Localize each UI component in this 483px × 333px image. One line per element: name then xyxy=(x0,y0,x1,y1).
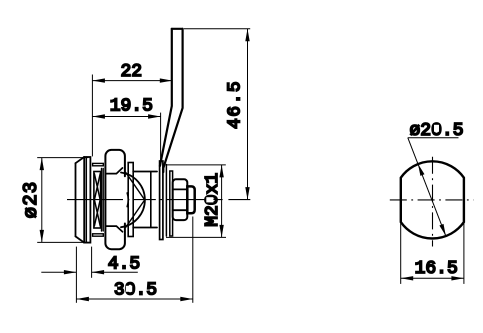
big nut chamfer arc xyxy=(121,173,145,228)
big nut facet line top xyxy=(105,168,122,174)
arrowheads 16.5 xyxy=(401,276,464,280)
washer before nut xyxy=(102,169,104,232)
dimension line M20x1 xyxy=(221,165,223,238)
arrowheads dia20.5 xyxy=(418,164,446,236)
extension line at flange rear xyxy=(91,75,93,157)
washer bottom cap xyxy=(93,234,104,236)
spacer plate xyxy=(165,165,167,237)
washer top cap xyxy=(93,163,104,165)
extension line at lever top xyxy=(184,28,250,30)
arrowheads dia23 xyxy=(40,158,44,243)
big nut M20 outline xyxy=(105,150,125,249)
washer behind nut xyxy=(128,163,133,237)
centerline side view xyxy=(67,199,250,201)
nut right facet arc xyxy=(127,193,128,207)
svg-text:22: 22 xyxy=(120,62,142,82)
bezel front face xyxy=(75,163,77,236)
spring housing xyxy=(94,172,101,229)
small nut facet top xyxy=(173,188,188,190)
extension lines dia23 xyxy=(37,158,88,243)
arrowheads 22 and 19.5 xyxy=(92,78,172,118)
svg-text:46.5: 46.5 xyxy=(226,80,246,129)
arrowheads M20x1 xyxy=(219,165,223,238)
dimension line 22 xyxy=(92,80,172,82)
cam plate xyxy=(160,161,163,240)
extension lines 4.5 xyxy=(76,247,91,303)
svg-text:30.5: 30.5 xyxy=(114,281,157,301)
arrowheads 46.5 xyxy=(245,29,249,200)
extension line at lock rear xyxy=(192,217,194,303)
leader underline dia20.5 xyxy=(408,137,459,139)
extension lines 16.5 xyxy=(401,223,464,284)
big nut facet line bottom xyxy=(105,226,122,232)
rear tube end face xyxy=(150,172,152,227)
spring zigzag xyxy=(94,174,100,226)
svg-text:4.5: 4.5 xyxy=(108,255,140,275)
bezel cone top xyxy=(76,157,85,163)
svg-text:ø23: ø23 xyxy=(20,181,42,219)
leader line dia20.5 xyxy=(408,138,446,236)
rear tube bottom xyxy=(133,227,157,229)
arrowheads 4.5 xyxy=(64,270,104,274)
white patches to hide mono zero dots xyxy=(126,125,439,292)
flange inner line xyxy=(85,157,87,243)
dimension line 4.5 xyxy=(41,271,138,273)
extension lines M20x1 xyxy=(166,165,226,238)
right view centerlines xyxy=(390,157,474,247)
flange ring xyxy=(84,157,90,243)
arrowheads 30.5 xyxy=(76,297,192,301)
cam lever xyxy=(160,29,183,172)
dimension line 30.5 xyxy=(76,298,192,300)
extension line at lever bend xyxy=(160,113,162,166)
small nut xyxy=(173,179,188,220)
dimension line 46.5 xyxy=(247,29,249,200)
svg-text:19.5: 19.5 xyxy=(110,97,153,117)
dimension line 19.5 xyxy=(92,116,160,118)
dimension line 16.5 xyxy=(401,277,464,279)
washer behind lever xyxy=(170,171,173,236)
chamfer cone lines xyxy=(126,173,145,228)
dimension line dia23 xyxy=(41,158,43,243)
end cap xyxy=(187,186,194,213)
small nut facet bottom xyxy=(173,209,188,211)
right view outline xyxy=(401,161,464,238)
bezel cone bottom xyxy=(76,236,85,242)
rear tube top xyxy=(133,171,157,173)
svg-text:16.5: 16.5 xyxy=(415,259,458,279)
